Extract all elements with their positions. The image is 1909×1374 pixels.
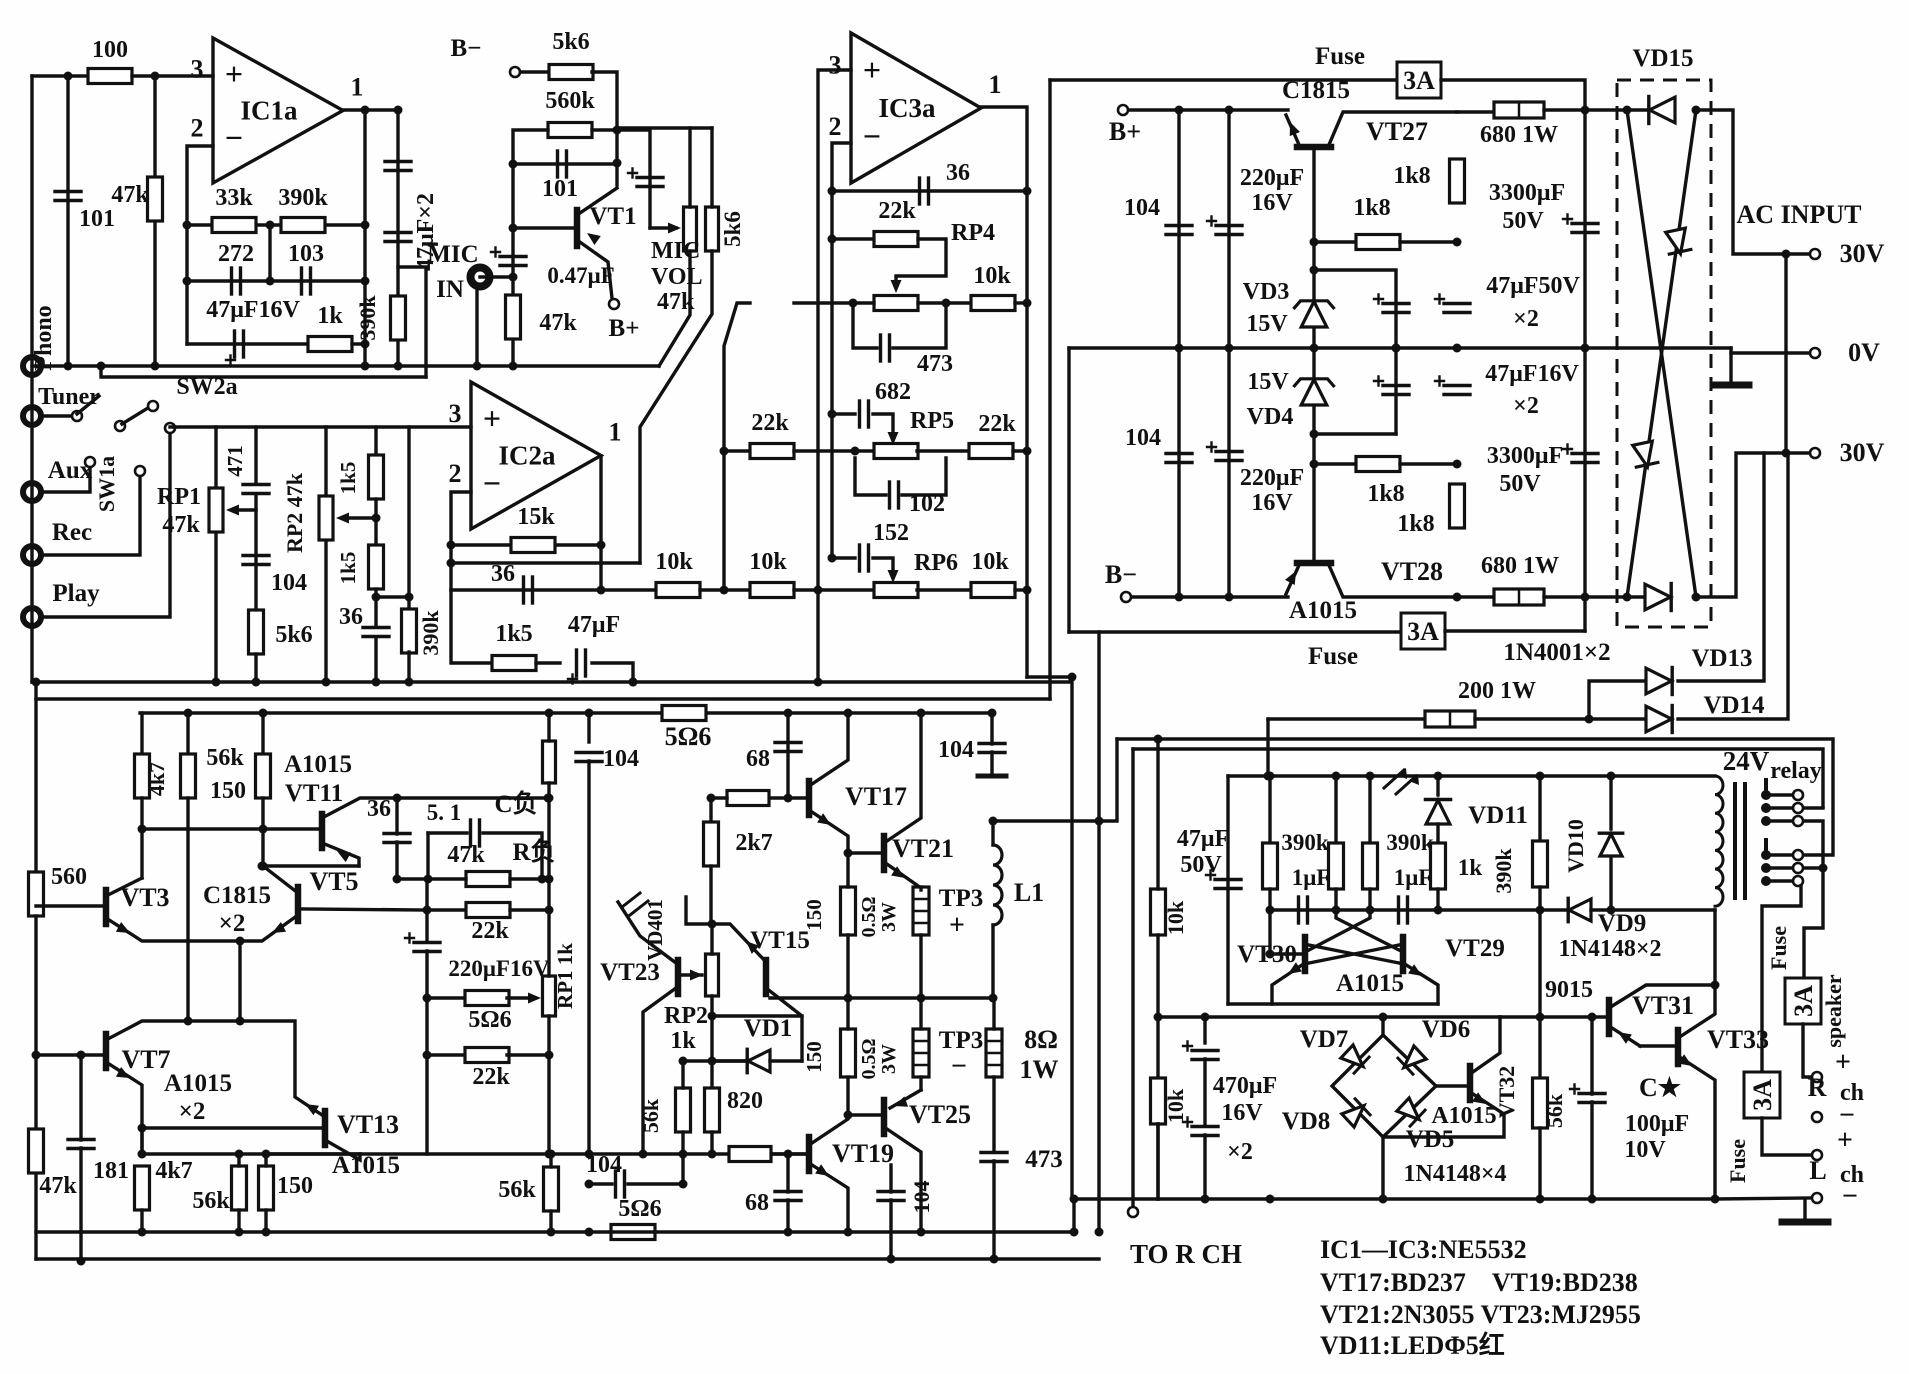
wire vt33 emitter xyxy=(1678,1056,1715,1199)
diode bridge inner a xyxy=(1665,228,1692,256)
svg-text:Phono: Phono xyxy=(31,305,57,370)
transistor VT33 xyxy=(1675,1030,1682,1064)
wire vt33 collector xyxy=(1678,985,1715,1038)
svg-text:47k: 47k xyxy=(162,512,200,538)
resistor 5R6 fb xyxy=(611,1225,655,1240)
wire 56k bottom xyxy=(681,1132,684,1184)
svg-text:101: 101 xyxy=(79,206,115,232)
zener VD4 xyxy=(1301,380,1327,406)
capacitor 36 tone xyxy=(363,626,389,629)
capacitor 3300uF a xyxy=(1572,222,1598,225)
svg-text:5k6: 5k6 xyxy=(552,29,589,55)
svg-text:VT33: VT33 xyxy=(1707,1025,1769,1054)
wire AC 30V top xyxy=(1696,110,1809,254)
svg-text:10k: 10k xyxy=(971,549,1009,575)
svg-text:5k6: 5k6 xyxy=(275,622,312,648)
mid drive row xyxy=(266,1152,809,1155)
svg-text:VT11: VT11 xyxy=(285,780,343,807)
resistor 820 xyxy=(705,1088,720,1132)
diode bridge bottom xyxy=(1645,584,1671,610)
wire AC 30V bottom xyxy=(1696,453,1809,597)
svg-text:MIC: MIC xyxy=(427,241,478,268)
svg-text:RP1: RP1 xyxy=(157,484,201,510)
svg-text:VT19: VT19 xyxy=(832,1139,894,1168)
resistor 150 a xyxy=(261,713,264,754)
svg-text:560: 560 xyxy=(51,864,87,890)
fuse 3A bottom xyxy=(1069,630,1402,633)
svg-text:C★: C★ xyxy=(1639,1073,1682,1102)
protection emitter rail xyxy=(1228,1002,1438,1005)
pot RP4 xyxy=(874,296,918,311)
svg-text:3300μF: 3300μF xyxy=(1487,443,1563,469)
resistor 10k prot a xyxy=(1151,889,1166,935)
svg-text:RP1 1k: RP1 1k xyxy=(553,943,577,1009)
svg-text:150: 150 xyxy=(277,1173,313,1199)
wire output branch xyxy=(398,267,426,377)
capacitor C* 100uF xyxy=(1579,1092,1605,1095)
resistor 33k xyxy=(187,223,365,226)
svg-text:682: 682 xyxy=(875,379,911,405)
svg-text:VT21:2N3055 VT23:MJ2955: VT21:2N3055 VT23:MJ2955 xyxy=(1320,1300,1641,1329)
supply top rail xyxy=(1050,78,1400,81)
svg-text:Fuse: Fuse xyxy=(1315,43,1365,70)
resistor 560k xyxy=(548,123,592,138)
capacitor 104 ps-a xyxy=(1177,110,1180,597)
svg-text:B−: B− xyxy=(1105,560,1137,589)
svg-text:5. 1: 5. 1 xyxy=(427,800,462,825)
svg-text:Tuner: Tuner xyxy=(38,384,100,410)
wire x1072 long xyxy=(1070,677,1073,1199)
preamp bottom rail xyxy=(32,364,659,367)
wire contact common upper xyxy=(1804,806,1823,809)
svg-text:VD10: VD10 xyxy=(1563,819,1588,873)
terminal 30V top xyxy=(1810,249,1820,259)
svg-text:3A: 3A xyxy=(1789,985,1818,1017)
wire coil bottom link xyxy=(1713,910,1716,985)
svg-text:VD4: VD4 xyxy=(1247,404,1294,430)
capacitor 220uF16V ps-a xyxy=(1227,110,1230,597)
resistor 47k R-load xyxy=(426,833,429,879)
svg-text:L: L xyxy=(1809,1156,1826,1185)
resistor 10k prot b xyxy=(1151,1078,1166,1124)
capacitor 470uF b xyxy=(1192,1125,1218,1128)
svg-text:1k8: 1k8 xyxy=(1353,195,1390,221)
node fb column xyxy=(363,110,366,366)
svg-text:A1015: A1015 xyxy=(164,1070,232,1097)
bridge VD15 box xyxy=(1617,80,1711,627)
bridge VD5-8 diamond xyxy=(1332,1035,1436,1137)
wire VT27 base column xyxy=(1312,147,1315,563)
diode VD10 xyxy=(1609,776,1612,829)
resistor 5R6 rail xyxy=(662,706,706,721)
svg-text:TP3: TP3 xyxy=(939,1027,983,1054)
svg-text:5Ω6: 5Ω6 xyxy=(665,722,712,751)
terminal L ch - xyxy=(1812,1193,1822,1203)
resistor 1k5 b xyxy=(369,545,384,589)
svg-text:3: 3 xyxy=(449,399,462,428)
resistor 10k m1 xyxy=(656,583,700,598)
ground output xyxy=(1803,1199,1806,1220)
resistor 150 d1 xyxy=(841,887,856,935)
svg-text:VD14: VD14 xyxy=(1703,692,1765,719)
capacitor 471 xyxy=(254,427,257,484)
svg-text:100μF: 100μF xyxy=(1625,1111,1689,1137)
svg-text:A1015: A1015 xyxy=(1336,970,1404,997)
capacitor 47uF16V xyxy=(187,342,308,345)
svg-text:10k: 10k xyxy=(973,263,1011,289)
svg-text:Fuse: Fuse xyxy=(1725,1139,1750,1183)
wire contact NO upper to fuse R xyxy=(1804,821,1823,978)
svg-text:22k: 22k xyxy=(978,411,1016,437)
svg-text:2: 2 xyxy=(191,113,204,142)
resistor 10k m3 xyxy=(917,588,971,591)
resistor 47k mic xyxy=(511,277,514,366)
svg-text:68: 68 xyxy=(746,746,770,772)
svg-text:B−: B− xyxy=(451,35,482,62)
resistor 680 1W a xyxy=(1457,110,1497,113)
terminal 0V xyxy=(1810,348,1820,358)
bottom rail b xyxy=(36,1257,1099,1260)
svg-text:2: 2 xyxy=(829,112,842,141)
svg-text:5Ω6: 5Ω6 xyxy=(618,1196,661,1222)
svg-text:30V: 30V xyxy=(1840,438,1885,467)
wire rp4 row xyxy=(794,301,874,304)
svg-text:−: − xyxy=(1842,1181,1858,1212)
wire vt17 emitter xyxy=(809,810,848,853)
LED arrows xyxy=(1384,770,1416,794)
svg-text:16V: 16V xyxy=(1251,190,1293,216)
resistor 100 xyxy=(88,69,132,84)
resistor 56k c xyxy=(544,1167,559,1211)
svg-text:RP6: RP6 xyxy=(914,550,958,576)
wire IC2a pin2 xyxy=(451,492,471,590)
wire vt31 collector xyxy=(1609,985,1715,1008)
switch SW2a xyxy=(115,421,125,431)
svg-text:220μF: 220μF xyxy=(1240,165,1304,191)
svg-text:10V: 10V xyxy=(1624,1137,1666,1163)
terminal B+ xyxy=(1118,105,1128,115)
svg-text:IC3a: IC3a xyxy=(878,93,936,123)
svg-text:220μF16V: 220μF16V xyxy=(448,956,550,981)
capacitor 3300uF b xyxy=(1572,452,1598,455)
svg-text:1k8: 1k8 xyxy=(1367,481,1404,507)
wire vt21 emitter xyxy=(884,862,921,890)
terminal B- mic xyxy=(510,67,520,77)
svg-text:390k: 390k xyxy=(1491,848,1516,894)
svg-text:RP4: RP4 xyxy=(951,220,995,246)
svg-text:TO R CH: TO R CH xyxy=(1130,1239,1242,1269)
svg-text:100: 100 xyxy=(92,37,128,63)
svg-text:+: + xyxy=(225,55,243,91)
capacitor 36 comp xyxy=(395,798,398,834)
svg-text:10k: 10k xyxy=(749,549,787,575)
resistor 47k phono xyxy=(153,76,156,366)
relay contacts upper xyxy=(1761,790,1771,800)
svg-text:103: 103 xyxy=(288,241,324,267)
diode VD9 xyxy=(1569,899,1591,921)
protection left edge xyxy=(1226,776,1229,1004)
svg-text:15k: 15k xyxy=(517,504,555,530)
wire fuse to corner xyxy=(1441,80,1585,631)
terminal Rec xyxy=(23,546,41,564)
svg-text:VT3: VT3 xyxy=(120,883,169,912)
resistor 5k6 mic xyxy=(521,70,550,73)
relay coil xyxy=(1715,776,1723,906)
terminal B- xyxy=(1121,592,1131,602)
svg-text:VT1: VT1 xyxy=(589,203,636,230)
diode VD11 LED xyxy=(1436,776,1439,795)
svg-text:VT21: VT21 xyxy=(892,834,954,863)
resistor 390k out xyxy=(391,296,406,340)
svg-text:RP2 47k: RP2 47k xyxy=(282,472,307,553)
resistor 56k b xyxy=(232,1166,247,1210)
svg-text:22k: 22k xyxy=(878,198,916,224)
svg-text:+: + xyxy=(1837,1125,1853,1156)
diode bridge inner b xyxy=(1632,441,1659,469)
wire IC1a pin2 loop xyxy=(187,146,213,344)
svg-text:150: 150 xyxy=(802,1041,826,1073)
svg-text:A1015: A1015 xyxy=(284,751,352,778)
capacitor 47uF50V xyxy=(1444,302,1470,305)
capacitor 47uF16V xyxy=(1444,384,1470,387)
svg-text:50V: 50V xyxy=(1499,471,1541,497)
capacitor 181 xyxy=(79,1055,82,1140)
fuse 3A top xyxy=(1397,62,1441,98)
wire contact common lower xyxy=(1804,866,1823,869)
diode VD13 xyxy=(1589,681,1647,719)
resistor 1k8 h-b xyxy=(1314,462,1356,465)
resistor TP3 plus xyxy=(913,887,929,935)
wire IC3a pin3 column xyxy=(818,70,851,682)
wire m xyxy=(700,588,750,591)
svg-text:1k5: 1k5 xyxy=(336,552,360,585)
resistor 1k p xyxy=(1431,843,1446,889)
wire vt29 emitter xyxy=(1403,963,1438,1004)
svg-text:16V: 16V xyxy=(1251,490,1293,516)
wire vt23 base wiper xyxy=(681,973,702,976)
svg-text:−: − xyxy=(951,1051,967,1082)
svg-text:speaker: speaker xyxy=(1821,974,1846,1048)
wire vt21 collector xyxy=(884,713,921,843)
wire vt31 emitter xyxy=(1609,1026,1640,1046)
svg-text:1k5: 1k5 xyxy=(495,621,532,647)
resistor 680 1W b xyxy=(1457,595,1497,598)
op-amp IC3a xyxy=(851,33,981,183)
wire vt19 emitter xyxy=(809,1163,848,1232)
svg-text:390k: 390k xyxy=(1386,830,1434,855)
svg-text:104: 104 xyxy=(603,746,639,772)
resistor 5R6 bias xyxy=(427,996,466,999)
wire diff tail xyxy=(238,941,241,1021)
svg-text:9015: 9015 xyxy=(1545,977,1593,1003)
svg-text:+: + xyxy=(1835,1047,1851,1078)
svg-text:30V: 30V xyxy=(1840,239,1885,268)
speaker rail a xyxy=(1117,739,1833,855)
output rail xyxy=(770,996,993,999)
capacitor 68 a xyxy=(786,713,789,798)
svg-text:471: 471 xyxy=(223,445,247,477)
resistor 560 xyxy=(29,872,44,916)
resistor TP3 minus xyxy=(913,1029,929,1077)
svg-text:560k: 560k xyxy=(545,88,595,114)
svg-text:47k: 47k xyxy=(39,1173,77,1199)
select rail xyxy=(170,425,471,428)
capacitor 0.47uF xyxy=(500,255,526,258)
capacitor 1uF p1 xyxy=(1334,776,1337,843)
relay contacts lower xyxy=(1761,850,1771,860)
svg-text:Fuse: Fuse xyxy=(1766,926,1791,970)
terminal 30V bottom xyxy=(1810,448,1820,458)
svg-text:4k7: 4k7 xyxy=(155,1158,192,1184)
wire vt23 emitter down xyxy=(643,988,676,1154)
terminal R ch + xyxy=(1812,1072,1822,1082)
svg-text:150: 150 xyxy=(210,778,246,804)
resistor 56k a xyxy=(186,713,189,754)
svg-text:VT15: VT15 xyxy=(750,927,810,954)
resistor 56k vas xyxy=(676,1088,691,1132)
svg-text:IC2a: IC2a xyxy=(498,441,556,471)
wire to fuse L xyxy=(1762,886,1801,1072)
relay core xyxy=(1733,784,1737,898)
svg-text:SW1a: SW1a xyxy=(94,456,119,512)
svg-text:50V: 50V xyxy=(1502,208,1544,234)
capacitor 152 xyxy=(832,556,855,559)
svg-text:56k: 56k xyxy=(498,1177,536,1203)
mid supply rail xyxy=(1069,346,1731,349)
resistor 200 1W xyxy=(1268,717,1428,720)
svg-text:VT13: VT13 xyxy=(337,1110,399,1139)
svg-text:VT5: VT5 xyxy=(309,867,358,896)
wire vt32 collector xyxy=(1470,1017,1500,1074)
svg-text:104: 104 xyxy=(586,1152,622,1178)
svg-text:680 1W: 680 1W xyxy=(1480,122,1558,148)
svg-text:MIC: MIC xyxy=(651,238,700,264)
svg-text:C1815: C1815 xyxy=(203,882,271,909)
capacitor 104 main xyxy=(587,713,590,742)
svg-text:Play: Play xyxy=(52,580,100,607)
amp top rail xyxy=(140,711,994,714)
svg-text:101: 101 xyxy=(542,176,578,202)
resistor 1k xyxy=(308,337,352,352)
capacitor 470uF a xyxy=(1203,1017,1206,1043)
ground AC xyxy=(1729,353,1732,383)
svg-text:68: 68 xyxy=(745,1190,769,1216)
resistor 5k6 tone xyxy=(249,610,264,654)
svg-text:VD6: VD6 xyxy=(1422,1016,1471,1043)
svg-text:473: 473 xyxy=(917,351,953,377)
op-amp IC1a xyxy=(213,38,343,183)
resistor 390k tone xyxy=(407,427,410,610)
svg-text:+: + xyxy=(483,400,501,436)
terminal L ch + xyxy=(1812,1150,1822,1160)
svg-text:3: 3 xyxy=(191,54,204,83)
wire vt25 base xyxy=(848,1113,884,1116)
svg-text:1: 1 xyxy=(989,70,1002,99)
resistor 1k8 h-a xyxy=(1314,240,1356,243)
svg-text:VT31: VT31 xyxy=(1632,991,1694,1020)
svg-text:104: 104 xyxy=(1125,425,1161,451)
svg-text:AC INPUT: AC INPUT xyxy=(1737,200,1862,229)
svg-text:56k: 56k xyxy=(206,745,244,771)
svg-text:50V: 50V xyxy=(1180,852,1222,878)
svg-text:47μF: 47μF xyxy=(1177,826,1229,852)
op-amp IC2a xyxy=(471,382,601,529)
svg-text:3300μF: 3300μF xyxy=(1489,180,1565,206)
svg-text:+: + xyxy=(863,52,881,88)
svg-text:Rec: Rec xyxy=(52,519,92,546)
resistor p2 xyxy=(1368,776,1371,843)
resistor 1k5 a xyxy=(374,427,377,455)
svg-text:VD7: VD7 xyxy=(1300,1026,1349,1053)
wire 200 to rail xyxy=(1266,719,1269,776)
svg-text:3A: 3A xyxy=(1403,66,1435,95)
pot MIC VOL xyxy=(684,207,697,251)
fuse 3A L xyxy=(1744,1072,1780,1118)
svg-text:VT17: VT17 xyxy=(845,782,907,811)
svg-text:A1015: A1015 xyxy=(332,1152,400,1179)
svg-text:L1: L1 xyxy=(1014,878,1044,907)
resistor 22k r5b xyxy=(917,449,969,452)
svg-text:10k: 10k xyxy=(1163,1088,1188,1123)
svg-text:390k: 390k xyxy=(278,185,328,211)
svg-text:15V: 15V xyxy=(1246,311,1288,337)
resistor 15k xyxy=(451,543,601,546)
svg-text:VD15: VD15 xyxy=(1632,45,1693,72)
svg-text:1k8: 1k8 xyxy=(1397,511,1434,537)
MIC IN terminal xyxy=(471,268,490,287)
left column lower xyxy=(34,682,37,872)
pot RP2 1k xyxy=(706,954,719,996)
resistor 10k m2 xyxy=(750,583,794,598)
svg-text:47μF: 47μF xyxy=(568,612,620,638)
svg-text:1N4148×4: 1N4148×4 xyxy=(1403,1161,1506,1187)
svg-text:VD11: VD11 xyxy=(1468,802,1528,829)
terminal Play xyxy=(23,608,41,626)
wire mic vol bottom diagonal xyxy=(659,251,690,366)
svg-text:B+: B+ xyxy=(609,315,640,342)
svg-text:150: 150 xyxy=(802,899,826,931)
svg-text:3W: 3W xyxy=(878,902,900,932)
capacitor 682 xyxy=(832,412,855,415)
svg-text:16V: 16V xyxy=(1221,1100,1263,1126)
svg-text:36: 36 xyxy=(367,796,391,822)
wire to R CH column xyxy=(1131,749,1134,1206)
resistor 1k8 v-b xyxy=(1450,484,1465,528)
coil L1 xyxy=(991,821,994,845)
resistor base vt19 xyxy=(729,1147,771,1162)
resistor 56k prot xyxy=(1538,910,1541,1078)
terminal R ch - xyxy=(1812,1112,1822,1122)
resistor 10k rp4 xyxy=(971,296,1015,311)
capacitor 104 vt19 xyxy=(878,1190,904,1193)
svg-text:36: 36 xyxy=(339,604,363,630)
diode bridge top xyxy=(1650,97,1676,123)
capacitor 272 xyxy=(187,279,365,282)
svg-text:×2: ×2 xyxy=(1227,1139,1253,1165)
svg-text:VD13: VD13 xyxy=(1691,645,1752,672)
svg-text:IC1—IC3:NE5532: IC1—IC3:NE5532 xyxy=(1320,1235,1527,1264)
svg-text:1N4148×2: 1N4148×2 xyxy=(1558,936,1661,962)
wire IC1a output xyxy=(343,108,400,111)
svg-text:3A: 3A xyxy=(1748,1079,1777,1111)
svg-text:1k: 1k xyxy=(670,1028,696,1054)
svg-text:Fuse: Fuse xyxy=(1308,643,1358,670)
svg-text:10k: 10k xyxy=(655,549,693,575)
resistor vt17 base xyxy=(727,791,769,806)
svg-text:820: 820 xyxy=(727,1088,763,1114)
wire IC3a out column xyxy=(981,107,1027,677)
pot RP5 xyxy=(874,444,918,459)
